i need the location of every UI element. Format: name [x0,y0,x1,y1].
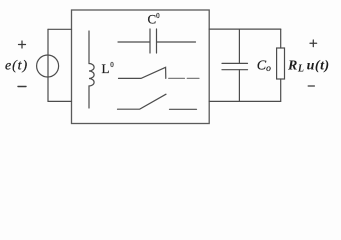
svg-text:RLu(t): RLu(t) [287,58,330,74]
resistor RL [277,29,285,101]
label e(t) [5,58,28,73]
wire top rail right [209,28,281,30]
label + (source) [19,41,26,48]
voltage source e(t) [37,55,59,77]
svg-text:e(t): e(t) [5,58,28,73]
svg-text:C0: C0 [148,12,161,27]
label minus (output) [308,85,314,87]
label RL u(t) [287,58,330,74]
svg-text:L0: L0 [102,61,115,76]
wire source top to box [48,28,72,30]
network box [72,10,210,124]
inductor L0 [89,31,94,108]
label C0 [148,12,161,27]
capacitor C0 [118,29,196,53]
switch S2 [118,94,197,109]
label minus (source) [18,86,26,88]
svg-text:Co: Co [257,59,271,75]
label + (output) [310,40,317,47]
wire bottom rail right [209,100,281,102]
label L0 [102,61,115,76]
capacitor Co [222,29,248,101]
switch S1 [119,67,200,78]
label Co [257,59,271,75]
wire source vertical [47,29,49,101]
wire source bottom to box [48,100,72,102]
